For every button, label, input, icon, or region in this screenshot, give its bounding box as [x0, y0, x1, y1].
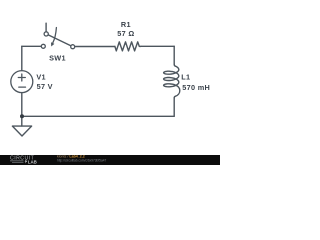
V1 plus sign: [18, 74, 25, 81]
wire bottom horizontal: [22, 115, 174, 117]
switch SW1 lever: [49, 35, 71, 46]
svg-text:570 mH: 570 mH: [182, 83, 210, 92]
wire switch to resistor: [75, 46, 115, 48]
voltage source V1 circle: [11, 71, 33, 93]
svg-text:57 V: 57 V: [37, 82, 53, 91]
footer logo underline rows: [10, 161, 24, 162]
svg-text:V1: V1: [36, 72, 46, 81]
wire left vertical: [21, 46, 23, 70]
footer bar: [0, 155, 220, 165]
resistor R1 zigzag: [115, 42, 141, 51]
wire right vertical top: [173, 46, 175, 64]
footer logo lightning bolt: [25, 159, 28, 163]
V1 minus sign: [19, 86, 26, 88]
wire resistor to top-right corner: [141, 45, 174, 47]
svg-text:L1: L1: [181, 72, 190, 81]
switch SW1 arrowhead: [51, 42, 54, 46]
switch SW1 action arrow arc: [53, 28, 57, 43]
svg-text:57 Ω: 57 Ω: [117, 29, 134, 38]
ground symbol triangle: [12, 126, 31, 136]
wire V1 bottom to junction: [21, 93, 23, 117]
switch SW1 pivot terminal circle: [44, 32, 48, 36]
wire right vertical bottom: [173, 98, 175, 117]
switch SW1 right terminal circle: [71, 45, 75, 49]
svg-text:SW1: SW1: [49, 53, 66, 62]
svg-text:http://circuitlab.com/c/6x973b: http://circuitlab.com/c/6x973bf5a47: [57, 159, 106, 163]
svg-text:R1: R1: [121, 20, 131, 29]
switch SW1 left terminal circle: [41, 44, 45, 48]
svg-text:LAB: LAB: [28, 159, 37, 164]
switch SW1 top stub: [45, 23, 47, 31]
wire ground stem: [21, 116, 23, 126]
wire top-left horizontal: [22, 45, 41, 47]
inductor L1 coil: [164, 64, 180, 98]
junction node dot: [20, 114, 24, 118]
